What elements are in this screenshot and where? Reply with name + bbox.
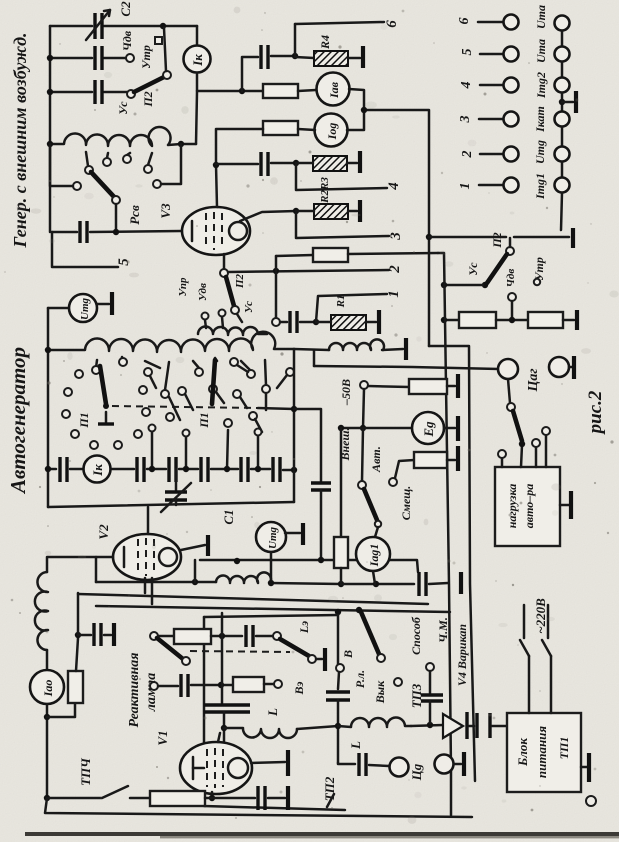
- svg-text:Авт.: Авт.: [369, 446, 383, 473]
- tube V3 anode top pin: [216, 165, 217, 207]
- V2 cathode wire left: [96, 557, 113, 582]
- resistor (white) to Iав: [263, 84, 298, 98]
- svg-text:Генер. с внешним возбужд.: Генер. с внешним возбужд.: [10, 32, 30, 248]
- contact Чдб: [126, 54, 134, 62]
- switch П2 arm: [134, 77, 164, 92]
- tube V1: [180, 742, 252, 794]
- svg-text:Uтg: Uтg: [267, 527, 279, 550]
- bus to Цаг: [314, 366, 499, 369]
- switch Рсв arm: [91, 172, 116, 199]
- anode rf ground: [251, 762, 285, 763]
- right vertical x294: [293, 349, 296, 502]
- svg-text:Uтg: Uтg: [79, 298, 91, 321]
- ground tap on chain: [559, 99, 565, 105]
- ground: [571, 228, 575, 248]
- svg-text:Uтg: Uтg: [533, 140, 547, 164]
- wire terminal 3: [296, 211, 389, 238]
- svg-text:2: 2: [387, 265, 403, 274]
- contact slants extra: [209, 385, 217, 393]
- supply ground: [581, 766, 587, 769]
- cap on bus A: [417, 572, 420, 596]
- row A switch: [150, 632, 158, 640]
- node wire down: [363, 389, 364, 428]
- rail mid left: [47, 308, 50, 507]
- wire grid row y232: [52, 231, 77, 234]
- inductor L2: [338, 717, 411, 727]
- branch x321 with cap: [294, 409, 321, 481]
- svg-text:Удв: Удв: [197, 283, 209, 301]
- contact Ус: [127, 90, 135, 98]
- load pins: [501, 458, 504, 467]
- resistor R4: [295, 57, 314, 58]
- svg-text:С2: С2: [118, 1, 133, 17]
- trimmer cap B branch: [336, 664, 344, 672]
- resistor to Iоg: [263, 121, 298, 135]
- svg-text:Р.л.: Р.л.: [353, 670, 367, 688]
- terminal stems + circles column1: [478, 21, 503, 24]
- cap branch to screen row: [242, 57, 258, 91]
- wire V_A: [438, 253, 451, 815]
- svg-text:Смещ.: Смещ.: [399, 486, 413, 521]
- bottom line y505: [48, 502, 294, 507]
- svg-text:L: L: [265, 708, 280, 717]
- row B: [150, 682, 158, 690]
- meter link wire: [347, 89, 364, 130]
- svg-text:Iк: Iк: [90, 464, 105, 477]
- wire top row y26: [50, 25, 92, 28]
- bus C y604: [96, 606, 450, 612]
- dashed gang link: [190, 651, 290, 652]
- capacitor grid: [78, 221, 81, 243]
- svg-text:V4 Варикап: V4 Варикап: [455, 624, 469, 686]
- svg-text:С1: С1: [221, 509, 236, 524]
- svg-text:Iоg: Iоg: [325, 123, 339, 141]
- svg-text:Iкат: Iкат: [533, 106, 547, 133]
- svg-text:1: 1: [458, 183, 473, 190]
- svg-text:В: В: [341, 650, 355, 659]
- svg-text:R4: R4: [318, 35, 332, 50]
- svg-text:1: 1: [386, 290, 402, 298]
- svg-text:Утр: Утр: [139, 45, 153, 69]
- resistor column x341: [340, 428, 343, 537]
- load box нагрузка авто-ра: [495, 467, 560, 546]
- П1 wiper arm: [100, 366, 106, 404]
- ground R4: [361, 46, 365, 68]
- meter Iао: [46, 650, 49, 670]
- svg-text:питания: питания: [534, 726, 549, 779]
- switch Внеш/Авт: [362, 428, 363, 481]
- coil taps down: [96, 360, 97, 368]
- varicap V4 diode: [443, 714, 463, 738]
- svg-text:Lэ: Lэ: [297, 621, 311, 634]
- svg-text:Упр: Упр: [177, 277, 189, 296]
- left edge link up: [47, 557, 96, 572]
- rail B: [45, 798, 472, 817]
- svg-text:Еg: Еg: [421, 421, 436, 438]
- cap to ground: [78, 634, 91, 637]
- wire row y58: [50, 57, 92, 60]
- contact to resistor row: [508, 293, 516, 301]
- capacitor row y469: [48, 468, 56, 471]
- supply box Блок питания: [507, 713, 581, 792]
- svg-text:рис.2: рис.2: [585, 390, 606, 435]
- node top junction: [160, 23, 166, 29]
- capacitor C1 variable: [175, 469, 178, 490]
- svg-text:R2R3: R2R3: [319, 177, 331, 204]
- resistor row y320: [444, 319, 459, 322]
- meter Eg: [412, 412, 444, 444]
- svg-text:~220В: ~220В: [533, 598, 548, 634]
- load ground: [560, 504, 569, 507]
- capacitor row3: [93, 80, 96, 104]
- wire left rail: [49, 26, 52, 232]
- svg-text:V2: V2: [96, 524, 111, 540]
- svg-text:П2: П2: [141, 91, 155, 107]
- wire y237: [429, 236, 506, 239]
- meter Iоg: [315, 114, 348, 147]
- V1 bottom pin: [211, 792, 214, 798]
- svg-text:Чдв: Чдв: [120, 30, 134, 51]
- contact slants: [169, 397, 180, 420]
- svg-text:Ус: Ус: [243, 301, 255, 313]
- tube V2: [113, 534, 181, 580]
- bus B y593: [78, 594, 428, 604]
- svg-text:Реактивная: Реактивная: [127, 653, 142, 728]
- RC branch: [47, 703, 75, 717]
- svg-text:3: 3: [458, 116, 473, 124]
- svg-text:П1: П1: [197, 412, 211, 428]
- svg-text:5: 5: [116, 258, 132, 266]
- svg-text:Ч.М.: Ч.М.: [436, 617, 450, 643]
- svg-text:Способ: Способ: [409, 616, 423, 655]
- svg-text:V3: V3: [158, 203, 173, 219]
- grid leak row y322: [280, 321, 287, 324]
- wire screen row to V_A: [276, 255, 313, 256]
- svg-text:ТП2: ТП2: [322, 776, 337, 801]
- svg-text:3: 3: [388, 232, 404, 241]
- capacitor C2 (variable): [93, 13, 96, 39]
- svg-text:Цg: Цg: [409, 763, 424, 781]
- svg-text:Вэ: Вэ: [292, 681, 306, 695]
- svg-text:L: L: [348, 741, 363, 750]
- meter Uтg2: [256, 522, 286, 552]
- terminals Цg: [338, 763, 355, 764]
- frame: [204, 617, 345, 810]
- grid node vertical: [275, 256, 278, 318]
- svg-text:ТП1: ТП1: [557, 737, 571, 760]
- П1b wiper: [212, 360, 215, 404]
- anode node: [213, 162, 219, 168]
- tank coil big: [48, 332, 294, 352]
- bar mark on pivot: [105, 412, 108, 422]
- tube V3: [182, 207, 250, 255]
- svg-text:6: 6: [457, 18, 472, 25]
- svg-text:П2: П2: [490, 232, 504, 248]
- svg-text:нагрузка: нагрузка: [505, 484, 519, 529]
- svg-text:ТПЧ: ТПЧ: [78, 757, 93, 786]
- svg-text:Uта: Uта: [534, 5, 548, 29]
- svg-text:П2: П2: [234, 273, 246, 289]
- svg-text:V1: V1: [155, 730, 170, 745]
- switch arm П2: [487, 254, 507, 283]
- meter Iав: [317, 73, 350, 106]
- svg-text:–50В: –50В: [339, 379, 353, 406]
- svg-text:Iао: Iао: [41, 680, 55, 698]
- V2 anode wire right + bar: [181, 545, 205, 550]
- svg-text:Чдв: Чдв: [505, 269, 517, 288]
- corner terminal: [586, 796, 596, 806]
- wire terminal 1: [316, 294, 387, 322]
- R3 row y163: [216, 163, 258, 166]
- svg-text:Цаг: Цаг: [526, 368, 541, 392]
- coil taps: [86, 152, 88, 166]
- switch П2 grid arm: [226, 277, 234, 306]
- V2 top pin to tank bottom: [147, 507, 150, 534]
- switch Р.л / Вык: [361, 612, 379, 654]
- tube V3 bottom pin: [223, 254, 226, 269]
- terminal -50В: [360, 381, 368, 389]
- wire terminal 4: [296, 163, 387, 190]
- svg-text:2: 2: [460, 151, 475, 159]
- switch to load: [508, 379, 510, 403]
- scan dark strip bottom: [25, 832, 619, 836]
- inductor on bus A: [216, 572, 271, 583]
- mains switch: [528, 656, 531, 713]
- pivot contact: [506, 247, 514, 255]
- wire y428: [341, 427, 412, 430]
- svg-text:Iк: Iк: [190, 54, 205, 67]
- svg-text:Iтg1: Iтg1: [533, 173, 547, 200]
- wire V_B: [429, 346, 475, 781]
- meter Uтg: [48, 307, 69, 310]
- inductor to right: [224, 728, 297, 738]
- svg-text:Вык: Вык: [373, 680, 387, 704]
- tank coil (tapped): [50, 127, 196, 146]
- svg-text:Uта: Uта: [534, 39, 548, 63]
- svg-text:Утр: Утр: [532, 257, 546, 281]
- П1 right contact field: [161, 390, 169, 398]
- wire y91: [197, 90, 263, 93]
- svg-text:Iаg1: Iаg1: [367, 544, 381, 568]
- svg-text:Блок: Блок: [515, 738, 530, 767]
- rotary switch П1 ring: [92, 366, 100, 374]
- wire terminal 2: [228, 270, 389, 272]
- V2 bottom pins: [144, 578, 147, 593]
- svg-text:авто–ра: авто–ра: [522, 484, 536, 529]
- link up to bus B: [77, 593, 80, 635]
- bus A y582: [96, 581, 216, 584]
- wire row y92: [50, 91, 92, 94]
- svg-text:5: 5: [460, 49, 475, 56]
- resistor R1: [331, 315, 366, 330]
- svg-text:лампа: лампа: [144, 673, 159, 713]
- wire terminal 5: [52, 232, 118, 267]
- svg-text:Iтg2: Iтg2: [534, 72, 548, 99]
- rail to Рсв contact: [50, 144, 73, 186]
- taps to capacitor row: [151, 432, 154, 469]
- wire terminal 6: [295, 22, 384, 24]
- meter Ig1: [375, 527, 378, 537]
- svg-text:Ус: Ус: [116, 101, 130, 115]
- meter Iк: [196, 26, 199, 46]
- choke coil left edge: [35, 572, 48, 650]
- rail A with ТПЧ switch: [44, 795, 50, 801]
- circles column2 chained: [555, 16, 570, 31]
- contact Авт: [389, 478, 397, 486]
- svg-text:П1: П1: [77, 412, 91, 428]
- svg-text:4: 4: [386, 182, 402, 191]
- svg-text:Автогенератор: Автогенератор: [6, 347, 30, 495]
- wire y285 from V_A: [444, 284, 483, 287]
- varicap bias contact В: [426, 663, 434, 671]
- meter Iк2: [84, 456, 111, 483]
- svg-text:Ус: Ус: [466, 262, 480, 276]
- contact Утр: [155, 37, 162, 44]
- inductor -50V feed: [313, 350, 316, 366]
- svg-text:Рсв: Рсв: [127, 205, 142, 225]
- vertical with cap: [221, 613, 224, 703]
- chain lead down: [561, 193, 562, 230]
- svg-text:Iав: Iав: [327, 81, 341, 99]
- ganged dashed link: [112, 406, 258, 408]
- svg-text:4: 4: [459, 82, 474, 90]
- R2 row y211: [240, 211, 296, 221]
- capacitor row2: [93, 46, 96, 70]
- resistor Смещ: [414, 452, 447, 468]
- grid coil taps: [202, 313, 209, 320]
